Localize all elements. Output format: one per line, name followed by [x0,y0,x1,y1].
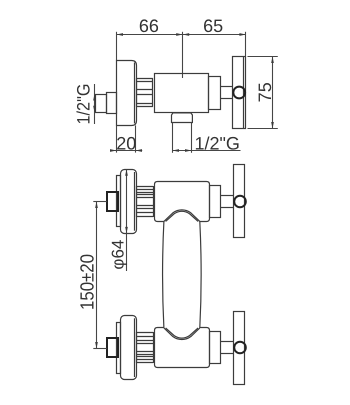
arrowhead 75 up [271,57,274,64]
arrowhead 65 right [239,33,246,36]
wire: extension line at handle face [245,32,247,57]
wire: 20 extension line left [116,125,118,152]
top arch outer [164,210,200,222]
wire: extension line at body axis [182,32,184,78]
svg-text:1/2"G: 1/2"G [195,133,240,153]
arrowhead 20 right [136,149,143,152]
svg-text:150±20: 150±20 [78,254,99,310]
handle stem top (front) [221,195,234,197]
mixer body (plan) [155,74,209,113]
arrowhead 150 up [95,202,98,209]
top arch inner [166,211,199,221]
arrowhead up [93,94,96,101]
wire: 75 extension top [248,56,278,58]
handle bar (front) [234,165,245,238]
wire: 1/2G dimension line [94,84,96,124]
wire: 150 extension bottom [93,348,107,350]
bottom arch outer [164,328,200,340]
valve body (front) [155,182,210,222]
svg-text:65: 65 [203,16,223,36]
wire: 150 extension top [93,201,107,203]
inlet nut [96,95,107,113]
wall flange disc (front) [121,170,137,234]
wire: 20 dimension line [110,150,142,152]
wire: column left side [163,221,164,328]
wire: extension line at flange face [116,32,118,61]
wire: phi64 dimension line [126,169,128,271]
handle hub circle (plan) [233,87,245,99]
top valve assembly [107,165,246,238]
svg-text:66: 66 [139,16,159,36]
arrowhead 66 left [117,33,124,36]
arrowhead outlet left [173,149,180,152]
handle stem bottom (front) [221,207,234,209]
arrowhead down [93,106,96,113]
wire: dimension line 66/65 [117,34,246,36]
arrowhead 65 left [183,33,190,36]
handle adapter (plan) [209,77,221,110]
handle stem top (plan) [220,86,232,88]
flange edge highlight [134,63,136,124]
arrowhead 66 right [176,33,183,36]
arrowhead 20 left [110,149,117,152]
wire: 75 dimension line [272,56,274,128]
wire: outlet pipe left / extension [172,123,174,153]
bottom valve assembly (mirrored copy) [107,312,246,385]
handle bar inner edge [243,57,245,128]
flange edge highlight [134,172,136,231]
inlet union square [107,192,118,211]
outlet collar [172,113,193,123]
arrowhead 150 down [95,342,98,349]
bottom arch inner [166,328,199,338]
cartridge ridges (front) [137,186,154,217]
svg-text:75: 75 [255,82,275,102]
wall flange plate (plan) [117,61,137,126]
wire: 150 dimension line [96,201,98,348]
svg-text:φ64: φ64 [108,240,127,270]
wire: outlet pipe right / extension [191,123,193,153]
wire: 1/2G outlet dimension line [173,150,241,152]
wire: column right side [200,221,201,328]
flange back plate [117,176,121,227]
inlet nut ring [107,93,117,114]
arrowhead 75 down [271,122,274,129]
arrowhead outlet right [185,149,192,152]
svg-text:1/2"G: 1/2"G [74,84,94,125]
cartridge ridges (plan) [136,78,153,107]
handle hub circle (front) [234,196,246,208]
arrowhead phi64 up [125,169,128,176]
handle adapter (front) [210,186,221,218]
handle stem bottom (plan) [220,98,232,100]
svg-text:20: 20 [116,133,136,153]
wire: 20 extension line right [135,125,137,152]
handle bar (plan) [233,57,246,129]
wire: 75 extension bottom [248,128,278,130]
arrowhead phi64 down [125,227,128,234]
